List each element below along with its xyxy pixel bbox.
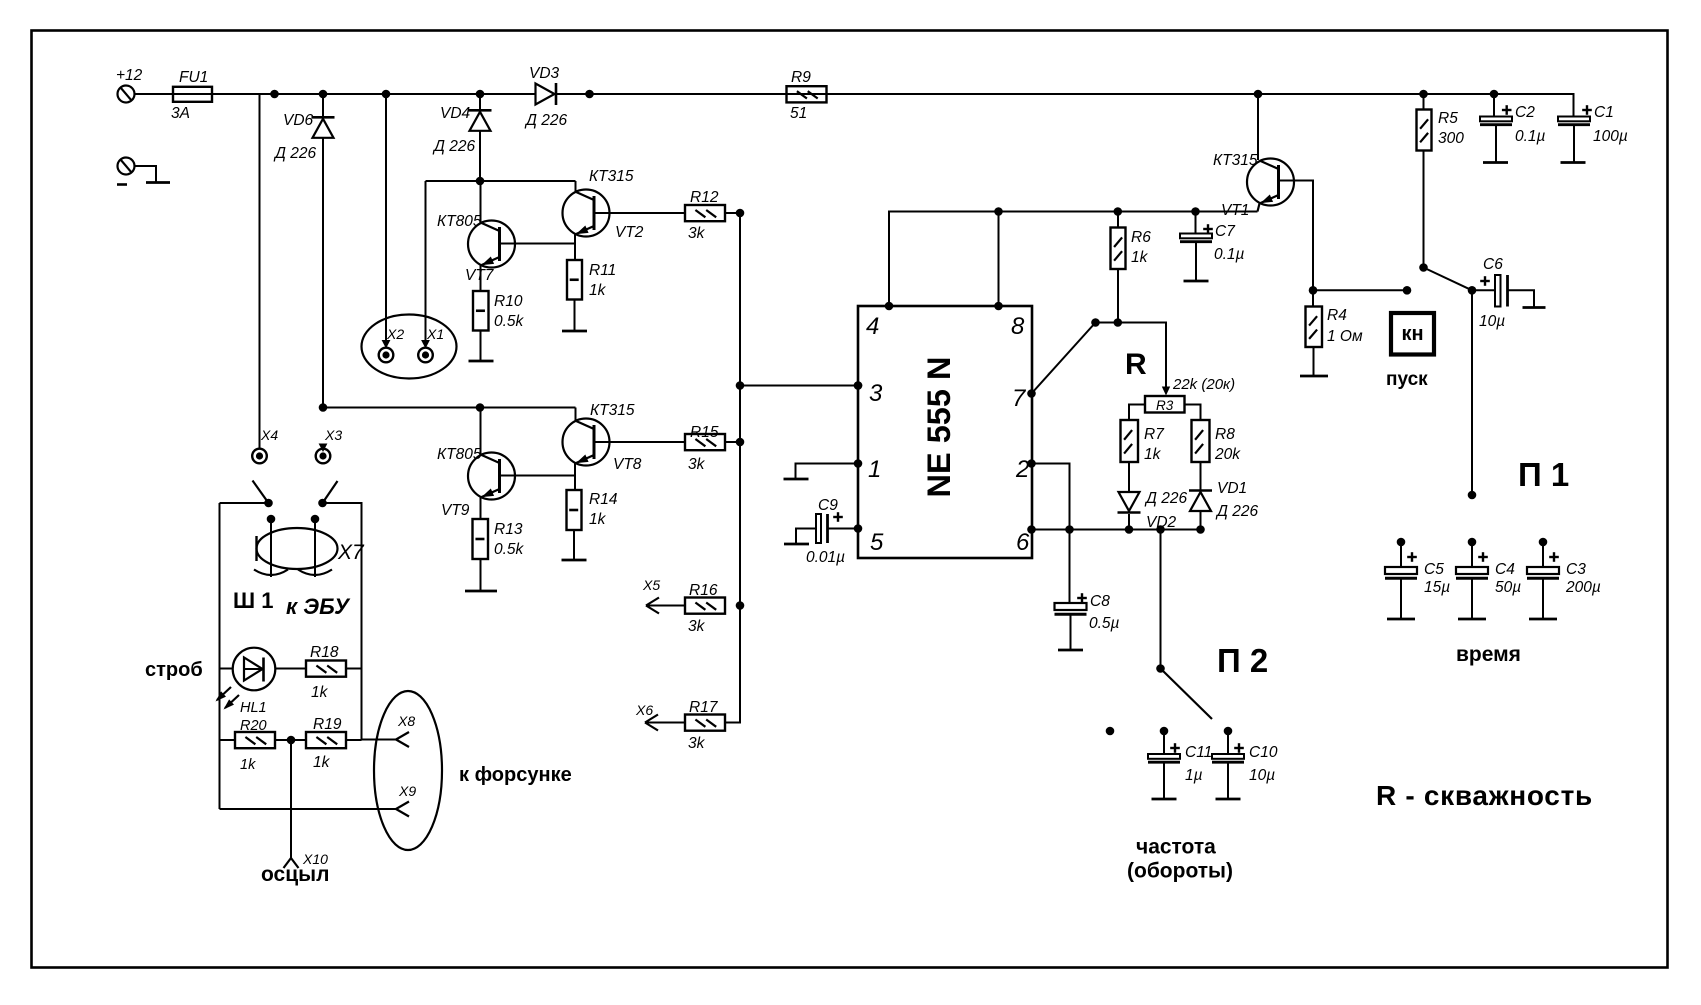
svg-text:3k: 3k [688,618,706,635]
svg-text:15µ: 15µ [1424,579,1450,596]
svg-text:X4: X4 [260,427,278,443]
svg-text:C2: C2 [1515,104,1535,121]
svg-text:R: R [1125,348,1147,381]
svg-text:22k (20к): 22k (20к) [1172,376,1235,393]
svg-text:R10: R10 [494,293,523,310]
svg-text:X3: X3 [324,427,342,443]
svg-text:X1: X1 [426,326,444,342]
svg-text:R17: R17 [689,699,719,716]
svg-text:КТ315: КТ315 [1213,152,1258,169]
svg-text:R14: R14 [589,491,618,508]
svg-text:3k: 3k [688,735,706,752]
svg-text:1k: 1k [313,754,331,771]
svg-text:Д 226: Д 226 [273,145,316,162]
svg-text:C11: C11 [1185,744,1212,761]
svg-text:R15: R15 [690,424,719,441]
svg-text:0.5µ: 0.5µ [1089,615,1120,632]
svg-text:П 1: П 1 [1518,456,1569,493]
svg-text:1µ: 1µ [1185,767,1203,784]
svg-text:осцыл: осцыл [261,863,329,886]
svg-text:1k: 1k [1131,249,1149,266]
svg-text:2: 2 [1015,456,1029,483]
svg-text:C5: C5 [1424,561,1444,578]
svg-text:1k: 1k [1144,446,1162,463]
svg-text:(обороты): (обороты) [1127,860,1233,883]
svg-text:Д 226: Д 226 [524,112,567,129]
svg-text:3k: 3k [688,225,706,242]
svg-text:VD4: VD4 [440,105,471,122]
svg-text:1k: 1k [589,282,607,299]
svg-text:R7: R7 [1144,426,1165,443]
svg-text:Д 226: Д 226 [432,138,475,155]
svg-text:R9: R9 [791,69,811,86]
svg-text:R6: R6 [1131,229,1151,246]
svg-text:NE 555 N: NE 555 N [921,357,957,498]
svg-text:R19: R19 [313,716,342,733]
svg-text:FU1: FU1 [179,69,208,86]
svg-text:к ЭБУ: к ЭБУ [286,594,351,619]
svg-text:к форсунке: к форсунке [459,764,572,786]
svg-text:П 2: П 2 [1217,642,1268,679]
svg-text:6: 6 [1016,529,1030,556]
svg-text:КТ805: КТ805 [437,213,482,230]
svg-text:КТ315: КТ315 [589,168,634,185]
svg-text:VD3: VD3 [529,65,560,82]
svg-text:0.1µ: 0.1µ [1515,128,1546,145]
svg-text:51: 51 [790,105,807,122]
svg-text:X6: X6 [635,702,653,718]
svg-text:R5: R5 [1438,110,1458,127]
svg-text:200µ: 200µ [1565,579,1601,596]
svg-text:0.01µ: 0.01µ [806,549,845,566]
svg-text:1k: 1k [240,757,256,773]
svg-text:3A: 3A [171,105,190,122]
svg-text:VT9: VT9 [441,502,470,519]
svg-text:VD2: VD2 [1146,514,1177,531]
svg-text:R11: R11 [589,262,616,279]
svg-text:+12: +12 [116,67,143,84]
svg-text:C7: C7 [1215,223,1236,240]
svg-text:X7: X7 [337,541,365,564]
svg-text:X2: X2 [386,326,404,342]
svg-text:кн: кн [1401,323,1423,345]
svg-text:10µ: 10µ [1249,767,1275,784]
svg-text:0.1µ: 0.1µ [1214,246,1245,263]
svg-text:строб: строб [145,659,203,681]
svg-text:3: 3 [869,380,883,407]
svg-text:C6: C6 [1483,256,1503,273]
svg-text:C4: C4 [1495,561,1515,578]
svg-text:5: 5 [870,529,884,556]
svg-text:0.5k: 0.5k [494,541,525,558]
svg-text:HL1: HL1 [240,700,267,716]
svg-text:VT8: VT8 [613,456,642,473]
svg-text:VT1: VT1 [1221,202,1249,219]
svg-text:C9: C9 [818,497,838,514]
svg-text:R13: R13 [494,521,523,538]
svg-text:300: 300 [1438,130,1464,147]
svg-text:КТ805: КТ805 [437,446,482,463]
svg-text:VT2: VT2 [615,224,644,241]
svg-text:VD6: VD6 [283,112,314,129]
svg-text:R4: R4 [1327,307,1347,324]
svg-text:1 Ом: 1 Ом [1327,328,1363,345]
svg-text:3k: 3k [688,456,706,473]
svg-text:R8: R8 [1215,426,1235,443]
svg-text:100µ: 100µ [1593,128,1628,145]
svg-text:1k: 1k [311,684,329,701]
svg-text:X8: X8 [397,713,415,729]
svg-text:Ш 1: Ш 1 [233,588,273,613]
svg-text:50µ: 50µ [1495,579,1521,596]
svg-text:Д 226: Д 226 [1215,503,1258,520]
svg-text:время: время [1456,643,1521,666]
svg-text:C10: C10 [1249,744,1278,761]
svg-text:C3: C3 [1566,561,1586,578]
svg-text:R16: R16 [689,582,718,599]
svg-text:4: 4 [866,313,879,340]
svg-text:X9: X9 [398,783,416,799]
svg-text:8: 8 [1011,313,1025,340]
svg-text:1: 1 [868,456,881,483]
svg-text:VD1: VD1 [1217,480,1247,497]
svg-text:1k: 1k [589,511,607,528]
svg-text:C8: C8 [1090,593,1110,610]
svg-text:пуск: пуск [1386,369,1428,390]
svg-text:частота: частота [1136,836,1216,859]
svg-text:R3: R3 [1156,398,1174,413]
svg-text:7: 7 [1012,385,1027,412]
svg-text:Д 226: Д 226 [1144,490,1187,507]
svg-text:R18: R18 [310,644,339,661]
svg-text:X5: X5 [642,577,660,593]
svg-text:10µ: 10µ [1479,313,1505,330]
svg-text:20k: 20k [1214,446,1241,463]
svg-text:C1: C1 [1594,104,1614,121]
svg-text:R - скважность: R - скважность [1376,780,1593,811]
svg-text:КТ315: КТ315 [590,402,635,419]
svg-text:0.5k: 0.5k [494,313,525,330]
svg-text:R12: R12 [690,189,719,206]
